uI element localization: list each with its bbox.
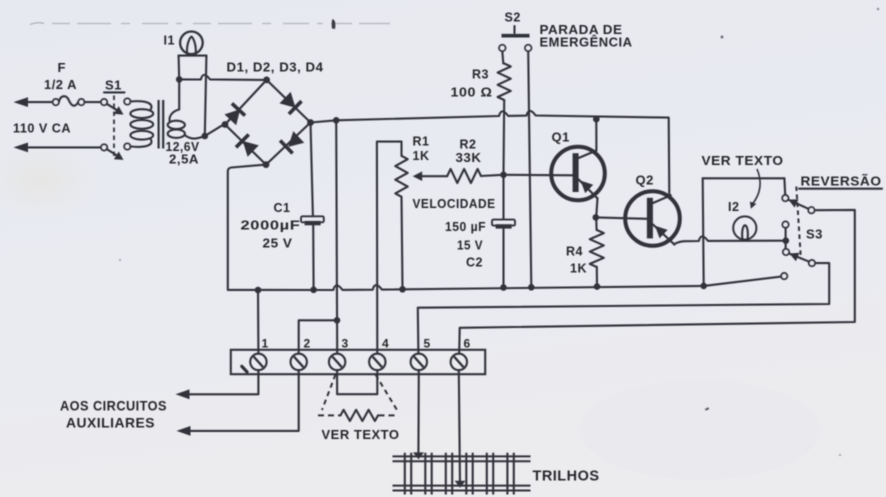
svg-text:S1: S1 xyxy=(105,78,122,93)
junction: rail to terminal-3 feed xyxy=(333,117,340,124)
svg-text:REVERSÃO: REVERSÃO xyxy=(801,174,882,189)
wire: terminal 6 down to track xyxy=(459,370,460,485)
junction: terminal 1 on bus xyxy=(255,287,262,294)
resistor R4 1K xyxy=(595,217,597,230)
junction: Q1 collector on rail xyxy=(593,116,600,123)
dashed leads to optional resistor xyxy=(322,375,336,411)
svg-text:Q2: Q2 xyxy=(636,173,654,188)
wire: secondary bottom to bridge left node xyxy=(205,125,223,136)
svg-text:33K: 33K xyxy=(456,151,482,165)
wire: lamp I1 right leg xyxy=(205,56,207,136)
svg-text:1K: 1K xyxy=(570,262,587,276)
solder blob terminal 5 wire to near rail xyxy=(413,452,424,459)
track ties xyxy=(405,453,411,495)
svg-text:2,5A: 2,5A xyxy=(169,153,199,167)
svg-text:R1: R1 xyxy=(413,135,430,149)
terminal 1 xyxy=(250,354,266,370)
junction: R1 bottom on bus xyxy=(399,286,406,293)
wire: terminal 5 down to track xyxy=(417,370,419,456)
node: bridge top xyxy=(263,77,270,84)
svg-text:100 Ω: 100 Ω xyxy=(451,86,493,100)
fuse F 1/2A xyxy=(53,99,59,105)
svg-text:VELOCIDADE: VELOCIDADE xyxy=(413,197,496,211)
wire: S3 bottom pivot to terminal 5 xyxy=(418,263,829,353)
junction: T2/T3 tee xyxy=(334,317,341,324)
wire: lamp branch right vertical to S3 upper contact xyxy=(783,178,786,195)
wire: S3 top pivot to terminal 6 xyxy=(459,210,855,354)
wire: base node to Q1 base xyxy=(504,174,573,177)
svg-text:1: 1 xyxy=(262,337,269,351)
wire: Q1 emitter down to R4/Q2-base node xyxy=(596,198,597,217)
svg-text:VER TEXTO: VER TEXTO xyxy=(322,428,400,442)
resistor R3 100ohm xyxy=(498,64,511,101)
diode D2 (top-right) xyxy=(280,92,296,108)
switch S1 arm top xyxy=(107,104,119,112)
wire: lamp branch left vertical down to bus xyxy=(703,178,704,286)
junction: lamp branch on bus xyxy=(700,283,707,290)
svg-text:S3: S3 xyxy=(806,227,823,242)
wire: AC input line bottom xyxy=(25,146,101,148)
transistor Q2 xyxy=(625,191,680,246)
switch S3 contact upper-left xyxy=(782,195,788,201)
diode D1 (top-left) xyxy=(225,109,241,125)
wire: R1 bottom to bus xyxy=(402,197,403,289)
arrow: AC input top xyxy=(14,97,29,107)
svg-text:R2: R2 xyxy=(460,138,477,152)
wire: bus to terminal 1 xyxy=(257,290,259,353)
transistor Q1 xyxy=(551,147,605,201)
tick mark near terminal 1 xyxy=(242,366,247,372)
wire: bridge bottom to negative bus (with hops at T3,T4 wires) xyxy=(228,165,704,290)
terminal 3 xyxy=(329,354,345,370)
arrow: AC input bottom xyxy=(14,143,29,153)
junction: secondary top / lamp / bridge AC1 xyxy=(176,76,183,83)
terminal strip xyxy=(231,350,485,374)
wire: lamp branch rectangle top xyxy=(703,177,785,179)
transformer T1 secondary winding xyxy=(170,82,180,121)
svg-text:I1: I1 xyxy=(164,34,175,48)
potentiometer R1 1K xyxy=(395,156,407,197)
junction: C1 on bus xyxy=(310,287,317,294)
wire: terminal 2 to auxiliary arrow xyxy=(187,370,299,431)
switch S1 arm bottom xyxy=(107,149,119,157)
transformer primary terminal bottom xyxy=(124,143,130,149)
wire: S2 left contact to R3 xyxy=(502,51,503,63)
wire: secondary top to bridge top node (with hop) xyxy=(179,75,263,80)
wire: strap terminal 3 to terminal 4 xyxy=(337,370,377,394)
junction: S2 wire on bus xyxy=(528,284,535,291)
junction: R2/R3 base node xyxy=(500,172,507,179)
junction: secondary bottom / lamp / bridge AC2 xyxy=(202,133,209,140)
svg-text:4: 4 xyxy=(382,337,389,351)
terminal 2 xyxy=(291,354,307,370)
wire: rail down to terminal 3 xyxy=(336,120,337,353)
track rails TRILHOS xyxy=(393,455,531,457)
wire: AC input line top xyxy=(25,101,53,103)
terminal 4 xyxy=(369,354,385,370)
resistor R2 33K with wiper arrow to R1 xyxy=(413,171,423,181)
svg-text:VER TEXTO: VER TEXTO xyxy=(702,154,784,168)
diode bridge frame D1-D4 xyxy=(225,80,311,165)
node: bridge left xyxy=(222,121,229,128)
svg-text:25 V: 25 V xyxy=(263,237,293,251)
terminal 6 xyxy=(451,354,467,370)
capacitor C1 2000uF wire xyxy=(311,123,313,217)
wire: S2 right contact down to bus xyxy=(528,51,531,287)
junction: C2 line on bus xyxy=(500,284,507,291)
switch S1 pole top xyxy=(101,99,107,105)
pushbutton S2 PARADA DE EMERGENCIA xyxy=(513,26,515,33)
transformer primary terminal top xyxy=(124,98,130,104)
wire: lamp I1 left leg xyxy=(178,56,181,80)
switch S3 pole contacts and feed xyxy=(782,222,788,228)
svg-text:F: F xyxy=(58,60,66,75)
svg-text:5: 5 xyxy=(424,337,431,351)
wire: R3 bottom down through rail to base node, C2, bus xyxy=(502,100,505,219)
svg-text:150 µF: 150 µF xyxy=(445,220,486,234)
svg-text:3: 3 xyxy=(342,337,349,351)
switch S3 link (dashed) xyxy=(796,187,801,258)
svg-text:EMERGÊNCIA: EMERGÊNCIA xyxy=(540,35,633,50)
svg-text:AOS CIRCUITOS: AOS CIRCUITOS xyxy=(60,398,167,414)
diode D3 (bottom-left) xyxy=(243,141,259,157)
svg-text:I2: I2 xyxy=(728,200,739,214)
junction: R4 on bus xyxy=(594,283,601,290)
svg-text:R4: R4 xyxy=(566,245,583,259)
transformer T1 primary winding xyxy=(130,101,151,109)
solder blob terminal 6 wire to far rail xyxy=(455,481,466,488)
diode D4 (bottom-right) xyxy=(288,131,304,147)
switch S3 pivot top xyxy=(808,207,814,213)
switch S1 link (dashed) xyxy=(113,96,115,159)
wire: Q2 emitter to S3 pole (hop over lamp-branch wire) xyxy=(674,236,786,244)
svg-text:R3: R3 xyxy=(472,68,489,82)
wire: fuse to S1 pole xyxy=(84,101,101,103)
svg-text:TRILHOS: TRILHOS xyxy=(533,469,600,485)
terminal 5 xyxy=(411,354,427,370)
svg-text:C1: C1 xyxy=(274,201,291,215)
wire: node to Q2 base xyxy=(596,217,647,218)
optional resistor VER TEXTO xyxy=(341,410,379,421)
svg-text:1K: 1K xyxy=(413,149,430,163)
wire: terminal 1 to auxiliary arrow xyxy=(186,370,258,394)
switch S3 contact lower-left xyxy=(781,273,787,279)
svg-text:1/2 A: 1/2 A xyxy=(44,78,77,92)
arrow: VER TEXTO to lamp xyxy=(753,169,761,204)
node: bridge bottom xyxy=(263,161,270,168)
switch S3 arm bottom xyxy=(789,254,809,262)
capacitor C1 symbol xyxy=(301,216,324,222)
capacitor C2 150uF symbol xyxy=(492,220,515,226)
svg-text:2000µF: 2000µF xyxy=(241,219,301,233)
switch S3 pivot bottom xyxy=(809,260,815,266)
svg-text:S2: S2 xyxy=(505,11,521,25)
switch S1 pole bottom xyxy=(101,144,107,150)
junction: Q1 emitter / R4 / Q2 base xyxy=(593,214,600,221)
svg-text:Q1: Q1 xyxy=(552,130,570,145)
transformer T1 core xyxy=(158,100,160,149)
wire: Q1 collector to rail xyxy=(595,119,597,150)
svg-text:C2: C2 xyxy=(466,256,483,270)
wire: tee left and down to terminal 2 xyxy=(299,320,337,353)
svg-text:6: 6 xyxy=(464,337,471,351)
svg-text:2: 2 xyxy=(304,337,311,351)
svg-text:AUXILIARES: AUXILIARES xyxy=(66,415,155,431)
switch S3 arm top xyxy=(788,200,809,209)
wire: R1 top loop down to terminal 4 (hop at bus drawn in bus) xyxy=(377,142,402,354)
lamp I1 xyxy=(180,32,203,55)
wire: bus to S3 lower-left contact xyxy=(704,277,781,286)
node: bridge right xyxy=(307,119,314,126)
svg-text:D1, D2, D3, D4: D1, D2, D3, D4 xyxy=(227,61,324,75)
svg-text:110 V CA: 110 V CA xyxy=(13,121,71,136)
wire: positive rail from bridge to Q2 collector (hops over R3 and S2 wires) xyxy=(311,111,670,196)
svg-text:15 V: 15 V xyxy=(457,239,483,253)
lamp I2 xyxy=(733,216,756,239)
